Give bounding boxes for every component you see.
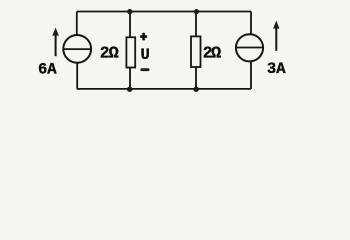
wire left branch bottom: [76, 63, 78, 89]
wire bottom rail: [77, 88, 251, 90]
resistor R2 body: [191, 36, 201, 67]
wire R2 bottom: [195, 67, 197, 89]
node junction dot top R1: [127, 9, 132, 14]
arrow I2 shaft: [275, 27, 277, 51]
arrow I1 head: [52, 28, 59, 36]
current source I2 circle: [236, 34, 263, 61]
node junction dot bottom R2: [194, 87, 199, 92]
wire R1 top: [129, 12, 131, 38]
wire left branch top: [76, 12, 78, 36]
resistor R1 body: [126, 37, 135, 67]
current source I1 circle: [63, 35, 91, 63]
svg-text:3A: 3A: [267, 60, 286, 78]
wire right branch top: [250, 12, 252, 35]
wire top rail: [77, 11, 251, 13]
node junction dot bottom R1: [127, 87, 132, 92]
label U minus sign: [140, 68, 149, 71]
svg-text:6A: 6A: [38, 60, 57, 78]
current source I2 bar: [236, 47, 264, 49]
wire right branch bottom: [250, 61, 252, 89]
wire R2 top: [195, 12, 197, 37]
arrow I1 shaft: [55, 34, 57, 56]
svg-text:Ω: Ω: [109, 44, 119, 63]
wire R1 bottom: [129, 68, 131, 89]
label U plus sign (polarity +): [142, 33, 145, 41]
node junction dot top R2: [194, 9, 199, 14]
svg-text:Ω: Ω: [211, 44, 221, 63]
svg-text:U: U: [141, 46, 150, 64]
arrow I2 head: [273, 21, 279, 29]
current source I1 bar: [63, 48, 91, 50]
